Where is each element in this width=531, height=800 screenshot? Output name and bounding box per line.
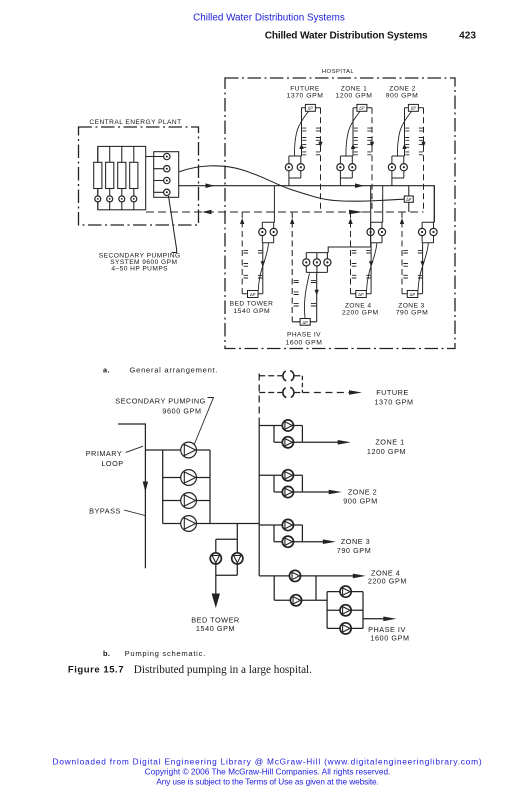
- svg-text:423: 423: [459, 30, 476, 41]
- svg-text:Chilled Water Distribution Sys: Chilled Water Distribution Systems: [193, 12, 345, 23]
- svg-text:Distributed pumping in a large: Distributed pumping in a large hospital.: [134, 664, 312, 676]
- svg-text:ZONE 1: ZONE 1: [375, 438, 404, 447]
- svg-text:2200 GPM: 2200 GPM: [368, 576, 407, 585]
- svg-text:ZONE 4: ZONE 4: [345, 302, 372, 309]
- svg-text:9600 GPM: 9600 GPM: [162, 406, 201, 415]
- svg-text:900 GPM: 900 GPM: [343, 496, 378, 505]
- svg-text:1540 GPM: 1540 GPM: [233, 308, 270, 315]
- svg-text:FUTURE: FUTURE: [376, 388, 409, 397]
- svg-text:b.: b.: [103, 649, 110, 658]
- svg-text:1370 GPM: 1370 GPM: [374, 398, 413, 407]
- svg-text:CENTRAL ENERGY PLANT: CENTRAL ENERGY PLANT: [89, 119, 181, 126]
- svg-text:PHASE IV: PHASE IV: [287, 331, 321, 338]
- svg-text:LOOP: LOOP: [101, 459, 123, 468]
- svg-text:PRIMARY: PRIMARY: [86, 449, 123, 458]
- svg-text:a.: a.: [103, 365, 110, 374]
- svg-text:ΔP: ΔP: [406, 197, 412, 202]
- svg-text:ZONE 3: ZONE 3: [341, 537, 370, 546]
- svg-text:ZONE 2: ZONE 2: [389, 86, 416, 93]
- svg-text:1200 GPM: 1200 GPM: [336, 93, 373, 100]
- svg-text:790 GPM: 790 GPM: [337, 546, 372, 555]
- svg-text:1200 GPM: 1200 GPM: [367, 447, 406, 456]
- svg-text:SECONDARY PUMPING: SECONDARY PUMPING: [115, 396, 206, 405]
- svg-text:BED TOWER: BED TOWER: [230, 301, 274, 308]
- svg-text:General arrangement.: General arrangement.: [130, 365, 219, 374]
- svg-text:FUTURE: FUTURE: [290, 86, 320, 93]
- svg-text:1370 GPM: 1370 GPM: [287, 93, 324, 100]
- svg-text:ZONE 2: ZONE 2: [348, 487, 377, 496]
- svg-text:Any use is subject to the Term: Any use is subject to the Terms of Use a…: [156, 777, 378, 787]
- svg-text:1540 GPM: 1540 GPM: [196, 624, 235, 633]
- svg-text:HOSPITAL: HOSPITAL: [322, 69, 355, 75]
- svg-text:Pumping schematic.: Pumping schematic.: [125, 649, 206, 658]
- svg-text:Chilled Water Distribution Sys: Chilled Water Distribution Systems: [265, 30, 428, 41]
- svg-text:ZONE 1: ZONE 1: [341, 86, 368, 93]
- svg-text:ΔP: ΔP: [302, 320, 308, 325]
- svg-text:Figure 15.7: Figure 15.7: [68, 665, 124, 676]
- svg-text:1600 GPM: 1600 GPM: [286, 340, 323, 347]
- svg-text:790 GPM: 790 GPM: [396, 310, 429, 317]
- svg-text:BYPASS: BYPASS: [89, 506, 121, 515]
- svg-text:ZONE 3: ZONE 3: [398, 302, 425, 309]
- svg-text:900 GPM: 900 GPM: [386, 93, 419, 100]
- svg-text:1600 GPM: 1600 GPM: [370, 634, 409, 643]
- svg-text:2200 GPM: 2200 GPM: [342, 310, 379, 317]
- svg-text:4–50 HP PUMPS: 4–50 HP PUMPS: [111, 266, 168, 273]
- svg-text:Copyright © 2006 The McGraw-Hi: Copyright © 2006 The McGraw-Hill Compani…: [145, 766, 391, 776]
- svg-text:Downloaded from Digital Engine: Downloaded from Digital Engineering Libr…: [53, 756, 483, 766]
